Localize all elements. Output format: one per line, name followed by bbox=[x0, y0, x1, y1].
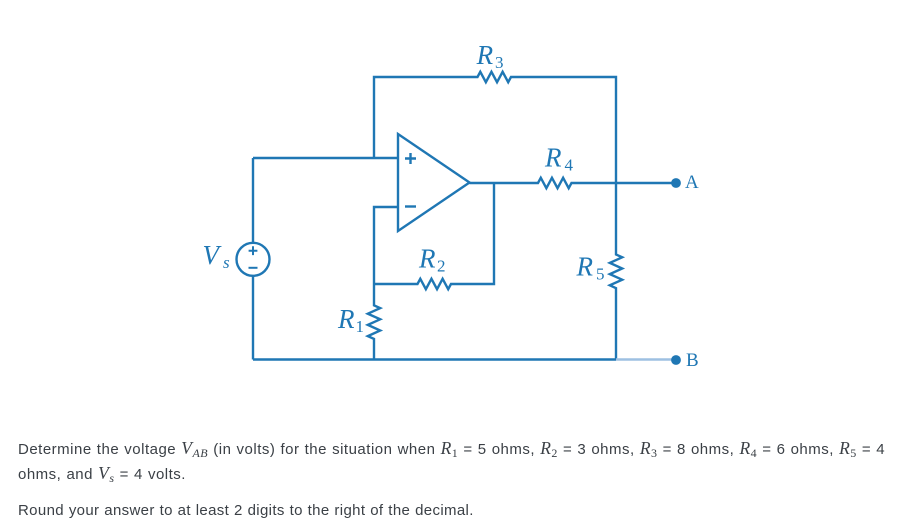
svg-text:3: 3 bbox=[495, 53, 504, 72]
svg-text:R: R bbox=[337, 304, 355, 334]
svg-text:4: 4 bbox=[565, 156, 574, 175]
svg-text:R: R bbox=[544, 143, 562, 173]
svg-text:V: V bbox=[203, 240, 223, 270]
svg-text:R: R bbox=[418, 244, 436, 274]
svg-text:A: A bbox=[685, 172, 699, 193]
svg-text:s: s bbox=[223, 253, 230, 272]
svg-text:2: 2 bbox=[437, 257, 446, 276]
svg-text:5: 5 bbox=[596, 265, 605, 284]
svg-text:R: R bbox=[576, 252, 594, 282]
svg-text:B: B bbox=[686, 350, 699, 371]
svg-text:R: R bbox=[476, 40, 494, 70]
svg-text:1: 1 bbox=[356, 317, 365, 336]
